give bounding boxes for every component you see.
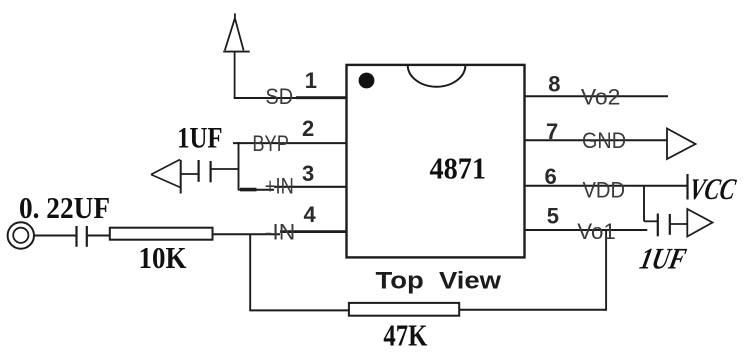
svg-text:1UF: 1UF [637, 242, 689, 276]
svg-text:7: 7 [546, 119, 558, 144]
node feedback junction vertical [249, 234, 251, 311]
svg-text:8: 8 [548, 72, 560, 97]
wire feedback right [459, 309, 606, 311]
svg-text:Vo2: Vo2 [581, 84, 621, 109]
IC U1 body 4871 [347, 65, 525, 258]
svg-text:VDD: VDD [583, 178, 626, 203]
svg-text:1UF: 1UF [177, 122, 223, 155]
input terminal J1 [8, 222, 34, 248]
svg-text:5: 5 [547, 204, 559, 229]
output arrow right [687, 209, 712, 237]
wire pin 8 Vo2 [525, 95, 669, 97]
wire pin 5 Vo1 [525, 229, 648, 231]
wire BYP node vertical to +IN [238, 142, 240, 190]
wire feedback vertical to Vo1 [605, 230, 607, 311]
capacitor C3 1UF output [658, 214, 687, 237]
wire +IN to pin 3 [239, 189, 275, 191]
svg-text:-IN: -IN [265, 219, 296, 244]
net label VCC [687, 172, 739, 206]
wire feedback left [249, 309, 349, 311]
svg-text:1: 1 [305, 68, 317, 93]
resistor R1 10K [110, 228, 213, 240]
wire SD vertical [234, 52, 236, 98]
svg-text:SD: SD [266, 84, 294, 109]
capacitor C1 0.22UF [77, 226, 87, 247]
svg-text:0. 22UF: 0. 22UF [19, 190, 110, 225]
wire BYP to pin 2 [233, 142, 347, 144]
VCC terminal bar [686, 174, 688, 200]
pin 1 dot [359, 73, 375, 89]
ground arrow right GND [667, 129, 696, 160]
wire pin 7 GND [525, 139, 667, 141]
capacitor C2 1UF bypass [181, 160, 239, 182]
svg-text:Top View: Top View [376, 268, 503, 295]
shutdown arrow symbol [223, 13, 250, 51]
svg-text:10K: 10K [139, 240, 187, 275]
svg-text:6: 6 [545, 164, 557, 189]
svg-text:3: 3 [302, 161, 314, 186]
svg-text:BYP: BYP [252, 131, 289, 156]
svg-text:+IN: +IN [265, 174, 294, 199]
ground arrow left [151, 160, 181, 194]
wire C1 to R1 [87, 235, 110, 237]
wire SD to pin 1 [234, 97, 347, 99]
svg-text:VCC: VCC [687, 172, 739, 206]
wire pin 6 VDD [525, 185, 688, 187]
resistor R2 47K [349, 303, 459, 316]
wire branch to C3 [644, 220, 658, 222]
wire R1 to pin 4 [213, 233, 281, 235]
svg-text:4871: 4871 [430, 151, 487, 186]
svg-text:4: 4 [304, 202, 317, 227]
wire VDD branch down [643, 186, 645, 222]
value label 1UF output [637, 242, 689, 276]
svg-text:GND: GND [582, 128, 626, 153]
wire input to C1 [34, 235, 76, 237]
svg-text:Vo1: Vo1 [577, 219, 616, 244]
svg-text:2: 2 [302, 116, 314, 141]
svg-text:47K: 47K [383, 318, 427, 353]
